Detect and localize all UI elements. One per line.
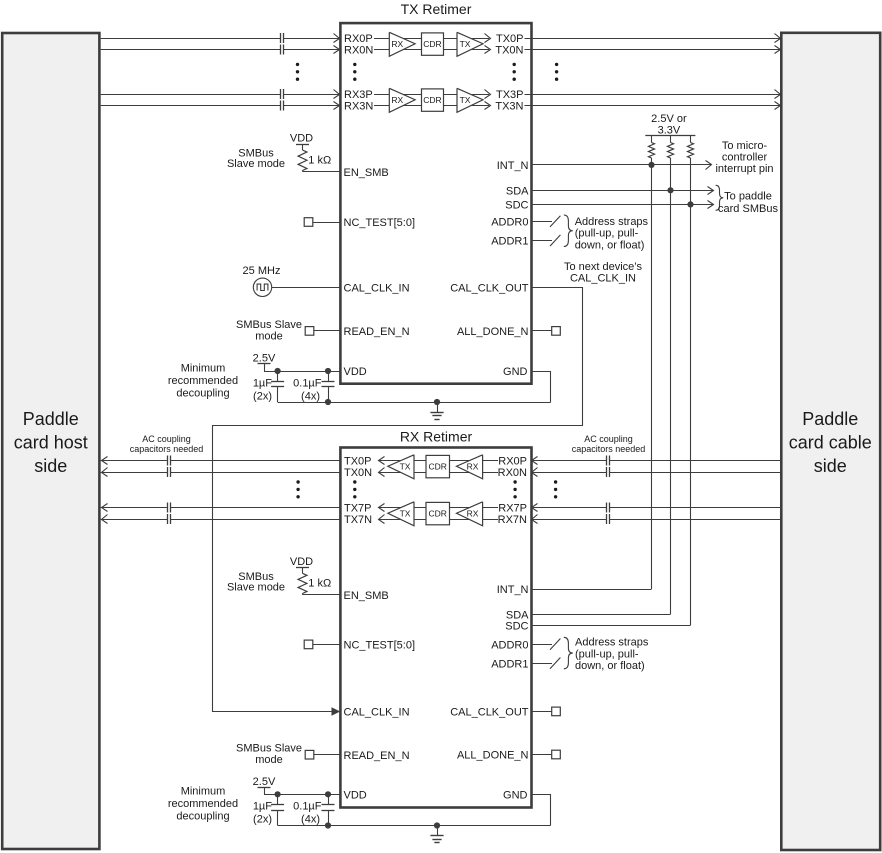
svg-text:NC_TEST[5:0]: NC_TEST[5:0] xyxy=(344,217,416,229)
svg-text:CDR: CDR xyxy=(423,95,441,105)
svg-text:To next device’s: To next device’s xyxy=(564,261,643,273)
svg-text:CDR: CDR xyxy=(428,461,446,471)
svg-text:side: side xyxy=(814,456,847,476)
svg-text:Paddle: Paddle xyxy=(802,409,858,429)
svg-text:Paddle: Paddle xyxy=(23,409,79,429)
svg-text:ADDR1: ADDR1 xyxy=(491,236,528,248)
svg-text:TX0N: TX0N xyxy=(495,45,523,57)
svg-text:1 kΩ: 1 kΩ xyxy=(308,154,331,166)
svg-text:mode: mode xyxy=(255,331,283,343)
svg-text:ADDR0: ADDR0 xyxy=(491,639,528,651)
svg-text:ALL_DONE_N: ALL_DONE_N xyxy=(457,326,529,338)
svg-text:To paddle: To paddle xyxy=(724,190,772,202)
svg-text:GND: GND xyxy=(503,790,528,802)
svg-text:TX7P: TX7P xyxy=(344,503,372,515)
svg-text:ADDR0: ADDR0 xyxy=(491,217,528,229)
svg-text:2.5V: 2.5V xyxy=(253,776,276,788)
svg-text:RX0P: RX0P xyxy=(344,33,373,45)
svg-text:RX3N: RX3N xyxy=(344,101,373,113)
svg-text:(4x): (4x) xyxy=(301,814,320,826)
svg-text:VDD: VDD xyxy=(290,133,313,145)
svg-text:TX0N: TX0N xyxy=(344,467,372,479)
svg-text:RX0P: RX0P xyxy=(498,456,527,468)
svg-text:CDR: CDR xyxy=(428,508,446,518)
svg-text:0.1µF: 0.1µF xyxy=(293,801,322,813)
svg-text:AC coupling: AC coupling xyxy=(142,434,191,444)
svg-text:RX: RX xyxy=(391,39,403,49)
svg-text:SMBus Slave: SMBus Slave xyxy=(236,319,302,331)
svg-text:Slave mode: Slave mode xyxy=(227,581,285,593)
svg-text:ADDR1: ADDR1 xyxy=(491,658,528,670)
svg-text:decoupling: decoupling xyxy=(176,811,229,823)
svg-text:TX: TX xyxy=(460,95,471,105)
svg-text:CAL_CLK_IN: CAL_CLK_IN xyxy=(344,282,410,294)
svg-text:READ_EN_N: READ_EN_N xyxy=(344,750,410,762)
svg-text:1µF: 1µF xyxy=(253,801,272,813)
svg-text:SDC: SDC xyxy=(505,200,528,212)
svg-text:TX: TX xyxy=(400,461,411,471)
svg-text:TX: TX xyxy=(460,39,471,49)
svg-text:card cable: card cable xyxy=(789,433,872,453)
svg-text:EN_SMB: EN_SMB xyxy=(344,590,389,602)
svg-text:INT_N: INT_N xyxy=(497,160,529,172)
svg-text:(4x): (4x) xyxy=(301,390,320,402)
svg-text:CAL_CLK_OUT: CAL_CLK_OUT xyxy=(450,707,529,719)
svg-text:capacitors needed: capacitors needed xyxy=(130,444,204,454)
svg-text:EN_SMB: EN_SMB xyxy=(344,167,389,179)
svg-text:recommended: recommended xyxy=(168,375,238,387)
svg-text:controller: controller xyxy=(722,152,768,164)
svg-text:INT_N: INT_N xyxy=(497,584,529,596)
svg-text:RX7N: RX7N xyxy=(498,514,527,526)
svg-text:decoupling: decoupling xyxy=(176,387,229,399)
svg-text:mode: mode xyxy=(255,754,283,766)
svg-text:1 kΩ: 1 kΩ xyxy=(308,578,331,590)
svg-text:TX Retimer: TX Retimer xyxy=(401,1,472,17)
svg-text:(2x): (2x) xyxy=(253,390,272,402)
svg-text:AC coupling: AC coupling xyxy=(584,434,633,444)
svg-text:side: side xyxy=(34,456,67,476)
svg-text:down, or float): down, or float) xyxy=(575,239,645,251)
svg-text:VDD: VDD xyxy=(344,366,367,378)
svg-text:RX: RX xyxy=(467,461,479,471)
svg-text:RX3P: RX3P xyxy=(344,89,373,101)
svg-text:(2x): (2x) xyxy=(253,814,272,826)
svg-text:RX0N: RX0N xyxy=(344,45,373,57)
svg-text:READ_EN_N: READ_EN_N xyxy=(344,326,410,338)
svg-text:card SMBus: card SMBus xyxy=(718,203,778,215)
svg-text:ALL_DONE_N: ALL_DONE_N xyxy=(457,750,529,762)
svg-text:TX0P: TX0P xyxy=(344,456,372,468)
svg-text:Address straps: Address straps xyxy=(575,637,649,649)
svg-text:TX3P: TX3P xyxy=(496,89,524,101)
svg-text:SMBus Slave: SMBus Slave xyxy=(236,743,302,755)
svg-text:down, or float): down, or float) xyxy=(575,660,645,672)
svg-text:Minimum: Minimum xyxy=(181,362,226,374)
svg-text:SDC: SDC xyxy=(505,621,528,633)
svg-text:1µF: 1µF xyxy=(253,377,272,389)
svg-text:GND: GND xyxy=(503,366,528,378)
svg-text:RX7P: RX7P xyxy=(498,503,527,515)
svg-text:recommended: recommended xyxy=(168,798,238,810)
svg-text:CAL_CLK_IN: CAL_CLK_IN xyxy=(344,707,410,719)
svg-text:SDA: SDA xyxy=(506,609,529,621)
svg-text:CDR: CDR xyxy=(423,39,441,49)
svg-text:CAL_CLK_IN: CAL_CLK_IN xyxy=(570,273,636,285)
svg-text:TX3N: TX3N xyxy=(495,101,523,113)
svg-text:RX: RX xyxy=(391,95,403,105)
svg-text:Address straps: Address straps xyxy=(575,216,649,228)
svg-text:TX7N: TX7N xyxy=(344,514,372,526)
svg-text:(pull-up, pull-: (pull-up, pull- xyxy=(575,228,639,240)
svg-text:Slave mode: Slave mode xyxy=(227,158,285,170)
svg-text:RX Retimer: RX Retimer xyxy=(400,429,473,445)
svg-text:RX: RX xyxy=(467,508,479,518)
svg-text:0.1µF: 0.1µF xyxy=(293,377,322,389)
svg-text:CAL_CLK_OUT: CAL_CLK_OUT xyxy=(450,282,529,294)
svg-text:3.3V: 3.3V xyxy=(658,124,681,136)
svg-text:TX: TX xyxy=(400,508,411,518)
svg-text:card host: card host xyxy=(14,433,88,453)
svg-text:To micro-: To micro- xyxy=(722,140,768,152)
svg-text:SDA: SDA xyxy=(506,186,529,198)
svg-text:2.5V: 2.5V xyxy=(253,353,276,365)
svg-text:2.5V or: 2.5V or xyxy=(651,113,687,125)
svg-text:interrupt pin: interrupt pin xyxy=(715,163,773,175)
svg-text:25 MHz: 25 MHz xyxy=(243,265,281,277)
svg-text:capacitors needed: capacitors needed xyxy=(572,444,646,454)
svg-text:RX0N: RX0N xyxy=(498,467,527,479)
svg-text:TX0P: TX0P xyxy=(496,33,524,45)
svg-text:VDD: VDD xyxy=(344,790,367,802)
svg-text:VDD: VDD xyxy=(290,556,313,568)
svg-text:Minimum: Minimum xyxy=(181,786,226,798)
svg-text:(pull-up, pull-: (pull-up, pull- xyxy=(575,648,639,660)
svg-text:NC_TEST[5:0]: NC_TEST[5:0] xyxy=(344,640,416,652)
